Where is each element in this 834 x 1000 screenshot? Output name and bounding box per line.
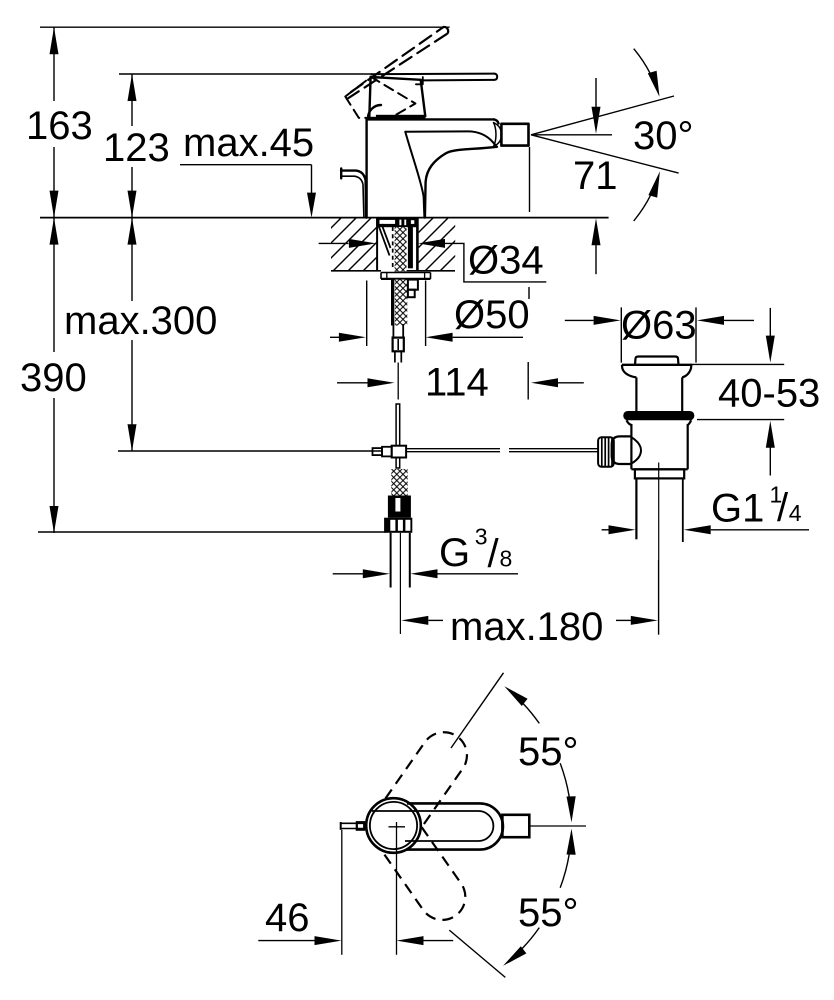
svg-text:114: 114 — [425, 361, 489, 405]
dashed raised handle bar lower line — [347, 34, 448, 100]
lever head right edge — [421, 80, 426, 117]
slab hatching left block — [288, 218, 431, 271]
waste tailpipe — [635, 478, 637, 539]
waste centerline — [658, 463, 660, 561]
lower braided hose — [391, 469, 407, 496]
pop-up rod knob outer — [341, 171, 366, 218]
dimension 390 line — [53, 218, 55, 352]
waste neck — [635, 377, 637, 411]
extension line top (lever raised level) — [40, 26, 450, 28]
pop-up rod knob end cap — [340, 168, 342, 178]
shank step 1 — [408, 280, 418, 290]
svg-text:390: 390 — [20, 356, 87, 400]
dashed raised lever head — [345, 77, 415, 118]
shank nut block under deck — [376, 218, 418, 227]
svg-text:max.45: max.45 — [183, 121, 314, 165]
55 degree arc lower seg D — [522, 928, 539, 949]
hose left bar below washer — [391, 280, 394, 326]
waste boss interior arc — [631, 437, 641, 463]
svg-text:55°: 55° — [518, 891, 579, 935]
waste O-ring — [623, 411, 694, 420]
plan pull rod stub — [341, 822, 364, 824]
svg-text:123: 123 — [103, 126, 170, 170]
dimension 40-53 lower — [766, 421, 775, 448]
svg-text:55°: 55° — [518, 730, 579, 774]
dimension Ø63 extension lines — [620, 307, 622, 362]
aerator block — [501, 124, 528, 146]
horizontal rod right segment 1 — [406, 448, 500, 450]
pull rod thin line — [397, 363, 399, 400]
svg-text:8: 8 — [500, 546, 513, 572]
lever pivot arc — [368, 105, 381, 118]
spout underside curve — [425, 147, 497, 218]
svg-text:71: 71 — [573, 154, 618, 198]
shank dashed centerline — [392, 227, 394, 270]
dimension 123 line — [131, 74, 133, 126]
G3/8 nut — [384, 518, 412, 533]
lever base band — [376, 115, 425, 120]
dimension Ø63 — [565, 319, 594, 321]
svg-text:Ø63: Ø63 — [621, 304, 697, 348]
handle bar end cap — [494, 74, 497, 80]
body left edge — [365, 119, 367, 217]
svg-text:Ø34: Ø34 — [468, 239, 544, 283]
dimension G1 1/4 — [602, 529, 610, 531]
lever head notch — [416, 77, 423, 84]
spray line upper — [531, 96, 674, 135]
T junction block — [392, 446, 406, 458]
clamp wedge diagonals — [379, 226, 390, 256]
aerator end cap (nose ellipse) — [494, 123, 502, 147]
aerator extension line segments — [529, 147, 531, 212]
horizontal rod right segment 2 — [509, 448, 598, 450]
plan centerline right — [529, 825, 586, 827]
dimension Ø50 extension lines — [366, 281, 368, 347]
svg-text:Ø50: Ø50 — [454, 293, 530, 337]
waste slip ring — [635, 469, 684, 478]
spout inner top line — [405, 131, 496, 145]
tube centerline — [399, 533, 401, 634]
braided hose below washer — [395, 280, 408, 326]
svg-text:4: 4 — [789, 500, 802, 526]
hose end fitting — [393, 338, 404, 352]
hose lower connector tube — [392, 324, 394, 338]
horizontal rod left segment — [118, 450, 382, 452]
pull rod upper tube — [394, 351, 396, 362]
dimension 163 line — [53, 27, 55, 101]
slab hatching right block — [380, 218, 493, 271]
dimension 71 upper arrow — [595, 78, 597, 107]
30 degree arc lower — [634, 195, 651, 221]
washer under slab — [381, 272, 431, 280]
dimension 71 lower arrow — [592, 218, 601, 245]
lower hose connector block — [388, 496, 411, 518]
slab bottom line — [331, 270, 381, 272]
55 degree extension line lower — [449, 930, 505, 977]
extension line lever closed level — [119, 73, 372, 75]
connection tube tails — [390, 533, 392, 588]
waste flange — [622, 364, 692, 366]
pull rod below T — [396, 458, 400, 469]
dimension max.300 line — [131, 218, 133, 301]
spout body joint diagonal — [405, 132, 424, 218]
extension line G3/8 level — [38, 531, 386, 533]
plan body circle outer — [366, 798, 421, 853]
T stub — [382, 447, 392, 457]
dimension 40-53 upper — [769, 308, 771, 337]
svg-text:/: / — [777, 486, 789, 530]
waste plug button — [635, 357, 679, 365]
55 degree arc upper seg A — [523, 704, 539, 724]
55 degree arc lower seg C — [560, 854, 569, 888]
plan aerator square — [502, 815, 529, 837]
pull rod above T — [396, 404, 400, 446]
dashed raised handle tip cap — [444, 27, 449, 34]
lever head left edge — [369, 77, 370, 118]
svg-text:3: 3 — [475, 524, 488, 550]
svg-text:163: 163 — [26, 104, 93, 148]
shank step 2 — [408, 290, 415, 298]
body top edge — [367, 118, 494, 120]
svg-text:/: / — [488, 532, 500, 576]
waste body — [627, 420, 632, 469]
spout nose top corner — [494, 119, 499, 123]
T stub outer — [373, 448, 383, 455]
30 degree arc upper — [634, 49, 650, 73]
dimension Ø50 — [330, 336, 340, 338]
plan center cross — [389, 826, 406, 828]
dimension 114 — [337, 382, 368, 384]
svg-text:40-53: 40-53 — [718, 372, 820, 416]
dimension G3/8 arrows — [333, 573, 363, 575]
40-53 extension line lower — [697, 419, 784, 421]
svg-text:G1: G1 — [711, 487, 764, 531]
plan dashed lever up position — [385, 723, 476, 825]
hole right edge — [416, 218, 419, 271]
braided hose in slab — [395, 227, 407, 271]
dimension 46 — [258, 940, 314, 942]
handle bar bottom — [423, 79, 494, 82]
55 degree arc upper seg B — [560, 763, 569, 797]
waste knurled knob — [598, 437, 614, 467]
svg-text:30°: 30° — [633, 114, 694, 158]
dashed raised handle bar upper line — [351, 27, 444, 92]
svg-text:46: 46 — [265, 896, 310, 940]
plan vertical centerline — [396, 822, 398, 955]
plan dashed lever down position — [384, 827, 475, 929]
plan lever outer outline — [406, 803, 503, 849]
spray line middle — [531, 134, 612, 136]
shank right bar — [408, 227, 413, 268]
hole left edge — [376, 218, 378, 271]
svg-text:G: G — [439, 531, 470, 575]
max.45 leader line — [180, 164, 312, 166]
svg-text:max.180: max.180 — [450, 605, 603, 649]
spray line lower — [531, 135, 679, 173]
deck surface line — [40, 217, 609, 219]
waste trigger boss — [612, 436, 632, 464]
dimension Ø34 — [319, 242, 349, 244]
plan lever inner outline — [372, 811, 494, 841]
40-53 extension line upper — [690, 363, 784, 365]
plan body circle inner — [370, 802, 417, 849]
svg-text:max.300: max.300 — [64, 299, 217, 343]
pop-up rod knob inner — [341, 176, 364, 217]
dimension max.180 — [401, 616, 428, 625]
lever head top edge — [371, 77, 421, 80]
max.180 right extension line — [658, 560, 660, 635]
handle bar top — [372, 73, 495, 76]
46 left extension line — [341, 830, 343, 955]
55 degree extension line upper — [451, 673, 504, 748]
